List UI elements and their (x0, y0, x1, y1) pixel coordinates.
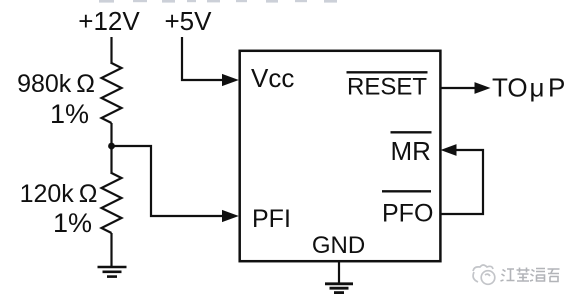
svg-text:1%: 1% (53, 208, 92, 238)
label R1 tolerance 1% (50, 99, 89, 129)
wire node A to R2 (110, 146, 112, 174)
pin label Vcc (251, 63, 294, 93)
svg-text:μ: μ (530, 73, 545, 103)
svg-text:RESET: RESET (347, 74, 427, 101)
svg-text:+5V: +5V (165, 6, 213, 36)
resistor R1 980k 1% (102, 63, 122, 123)
svg-text:MR: MR (391, 136, 431, 166)
wire R1 to node A (110, 123, 112, 150)
wire +5V to Vcc (with arrowhead) (182, 37, 239, 86)
watermark text Jiangsu Runshi (501, 268, 560, 282)
wire RESET to microprocessor (with arrowhead) (440, 82, 491, 94)
ground (below IC GND pin) (325, 284, 353, 293)
decorative: faint cropped text remnants at top edge (99, 0, 337, 3)
resistor R2 120k 1% (102, 173, 122, 233)
wire node A to PFI (with arrowhead) (112, 146, 239, 222)
svg-text:Vcc: Vcc (251, 63, 294, 93)
node A junction dot (108, 143, 115, 150)
label R1 value 980kOhm (17, 70, 95, 98)
svg-text:980k Ω: 980k Ω (17, 70, 95, 98)
wire GND pin to ground (338, 261, 340, 284)
pin label PFO (active low) (382, 191, 433, 227)
svg-text:P: P (548, 73, 565, 103)
pin label RESET (active low) (347, 72, 428, 100)
svg-text:+12V: +12V (78, 6, 140, 36)
label +5V supply (165, 6, 213, 36)
wire PFO to MR feedback loop (with arrowhead) (440, 144, 483, 214)
ground (left, below R2) (98, 267, 127, 277)
svg-text:GND: GND (312, 232, 365, 259)
label R2 tolerance 1% (53, 208, 92, 238)
svg-text:PFO: PFO (382, 200, 433, 228)
wire +12V to R1 (110, 37, 112, 64)
svg-text:1%: 1% (50, 99, 89, 129)
pin label MR (active low) (391, 132, 432, 166)
watermark logo (gray stone) (473, 265, 495, 284)
svg-text:TO: TO (492, 73, 528, 103)
pin label PFI (252, 205, 291, 233)
label R2 value 120kOhm (20, 180, 98, 208)
wire R2 to ground (110, 233, 112, 267)
IC U1 supervisor box (240, 51, 441, 261)
label +12V supply (78, 6, 140, 36)
pin label GND (312, 232, 365, 259)
svg-text:PFI: PFI (252, 205, 291, 233)
svg-text:120k Ω: 120k Ω (20, 180, 98, 208)
label TO uP (492, 73, 565, 103)
